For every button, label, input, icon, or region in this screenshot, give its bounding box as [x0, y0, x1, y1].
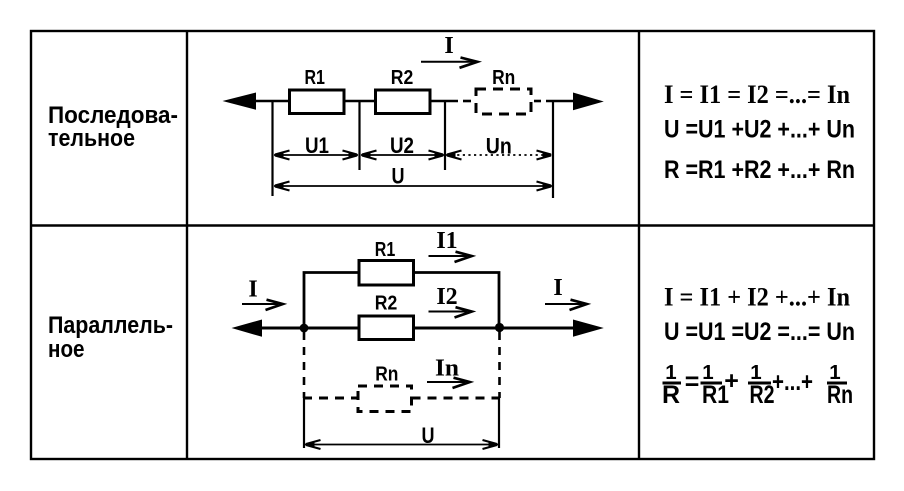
dimension U2 — [361, 133, 445, 160]
wire main right — [414, 327, 576, 330]
junction dot left — [300, 324, 309, 333]
resistor R1 — [359, 239, 414, 285]
resistor R1 — [290, 67, 345, 114]
wire — [431, 100, 458, 103]
svg-text:I: I — [444, 33, 453, 59]
svg-text:U2: U2 — [390, 133, 414, 158]
svg-text:тельное: тельное — [48, 125, 135, 152]
extension tick 1 — [271, 101, 273, 196]
svg-text:I: I — [248, 277, 257, 303]
wire — [252, 100, 289, 103]
dashed wire bottom left — [303, 397, 358, 400]
svg-text:R2: R2 — [375, 293, 398, 315]
table column divider 2 — [638, 31, 640, 459]
current arrow I2 — [429, 307, 472, 317]
svg-text:U: U — [422, 423, 435, 448]
svg-text:ное: ное — [48, 336, 85, 363]
svg-text:Rn: Rn — [375, 364, 398, 386]
wire dash — [463, 100, 471, 103]
table column divider 1 — [186, 31, 188, 459]
formula 1/R = 1/R1 + 1/R2 +...+ 1/Rn — [662, 361, 853, 409]
svg-text:Un: Un — [486, 133, 512, 158]
dimension extension right — [498, 398, 500, 448]
svg-text:R1: R1 — [375, 239, 396, 261]
wire main left — [258, 327, 359, 330]
svg-text:R2: R2 — [391, 67, 414, 89]
svg-text:+...+: +...+ — [772, 368, 813, 396]
current arrow I — [421, 58, 477, 68]
svg-text:+: + — [724, 367, 739, 395]
dimension extension left — [303, 398, 305, 448]
dashed wire right vertical — [498, 332, 501, 398]
dimension U1 — [274, 133, 359, 160]
svg-text:U =U1 =U2 =...= Un: U =U1 =U2 =...= Un — [664, 318, 855, 346]
node B right arrow terminal — [573, 93, 604, 111]
resistor R2 — [359, 293, 414, 340]
extension tick 3 — [444, 101, 446, 170]
dimension U bottom — [305, 423, 499, 449]
extension tick 4 — [552, 101, 554, 198]
svg-text:=: = — [685, 368, 700, 396]
svg-text:R1: R1 — [304, 67, 325, 89]
current arrow I1 — [429, 252, 472, 262]
svg-text:R: R — [662, 381, 680, 409]
wire — [345, 100, 375, 103]
dimension U — [274, 164, 553, 191]
resistor Rn (dashed) — [476, 67, 531, 114]
svg-text:I = I1 + I2 +...+ In: I = I1 + I2 +...+ In — [664, 283, 850, 312]
dashed wire bottom right — [412, 397, 501, 400]
wire branch top — [304, 273, 359, 329]
svg-text:U: U — [392, 164, 405, 189]
svg-text:I = I1 = I2 =...= In: I = I1 = I2 =...= In — [664, 80, 850, 109]
svg-text:I1: I1 — [436, 228, 457, 254]
wire — [546, 100, 576, 103]
dashed wire left vertical — [303, 332, 306, 398]
dimension Un (dotted) — [446, 133, 553, 159]
node A left arrow terminal — [223, 93, 257, 110]
svg-text:U1: U1 — [305, 133, 329, 158]
current arrow I right — [545, 300, 587, 310]
table row divider — [31, 224, 874, 226]
svg-text:R =R1 +R2 +...+ Rn: R =R1 +R2 +...+ Rn — [664, 156, 855, 184]
svg-text:Параллель-: Параллель- — [48, 312, 173, 339]
node D right arrow terminal — [573, 320, 604, 337]
svg-text:U =U1 +U2 +...+ Un: U =U1 +U2 +...+ Un — [664, 116, 855, 144]
node C left arrow terminal — [232, 320, 263, 337]
svg-text:I2: I2 — [436, 284, 457, 310]
extension tick 2 — [358, 101, 360, 170]
svg-text:R2: R2 — [750, 381, 775, 409]
resistor Rn (dashed) — [358, 364, 412, 412]
svg-text:Rn: Rn — [492, 67, 515, 89]
resistor R2 — [376, 67, 431, 114]
current arrow I left — [242, 300, 283, 310]
wire dash — [534, 100, 541, 103]
current arrow In — [427, 378, 470, 388]
svg-text:Rn: Rn — [827, 381, 853, 409]
junction dot right — [495, 323, 504, 332]
svg-text:I: I — [553, 275, 562, 301]
wire branch top right — [414, 273, 499, 327]
